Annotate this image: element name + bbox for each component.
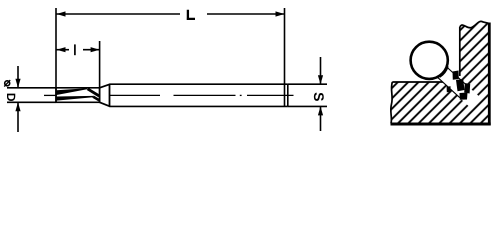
groove lower edge line bbox=[438, 77, 460, 97]
dimension S: upper leader with down arrowhead bbox=[320, 57, 322, 84]
dimension øD: lower extension line (bottom of cutting tip) bbox=[7, 101, 56, 103]
tool body: flute B helix return (down-right) bbox=[93, 97, 99, 101]
dimension l: label (lowercase l drawn as stroke) bbox=[74, 44, 76, 55]
workpiece: thick outer right edge bbox=[488, 23, 491, 126]
groove upper edge line bbox=[447, 67, 467, 85]
tool body: cutting tip rectangle outline bbox=[56, 88, 100, 103]
tool tip in groove: flute mark blob 1 bbox=[453, 71, 459, 80]
tool body: shank end face line bbox=[287, 84, 289, 106]
tool tip in groove: small chip mark bbox=[447, 86, 451, 92]
workpiece: wavy break line at top of wall bbox=[460, 21, 490, 27]
workpiece: wall left edge line bbox=[459, 27, 461, 76]
centerline: left stub bbox=[44, 94, 56, 96]
dimension S: lower leader with up arrowhead bbox=[320, 106, 322, 131]
tool body: flute A helix return (steep down-right) bbox=[88, 89, 100, 96]
tool body: taper bottom line bbox=[100, 102, 110, 106]
wire: right extension line of dimension L (passes through shank) bbox=[284, 8, 286, 106]
tool tip in groove: flute mark blob 3 bbox=[464, 83, 470, 94]
wire: right extension line of dimension l (continues into flute end line) bbox=[99, 41, 101, 102]
tool body: flute A wedge (rises toward top edge) bbox=[57, 88, 88, 95]
tool body: shank bottom edge bbox=[110, 105, 288, 107]
dimension l: right tail and arrowhead (pointing right) bbox=[83, 49, 100, 51]
dimension øD: upper leader with down arrowhead bbox=[17, 66, 19, 88]
dimension L: left arrowhead bbox=[57, 11, 66, 16]
svg-text:D: D bbox=[4, 93, 18, 102]
dimension l: left arrowhead (pointing left) with tail bbox=[57, 49, 70, 51]
tool body: flute B wedge bbox=[57, 96, 94, 101]
dimension øD: lower leader with up arrowhead bbox=[17, 102, 19, 132]
dimension L: right arrowhead bbox=[276, 11, 285, 16]
workpiece: floor top surface line bbox=[392, 81, 450, 83]
ball contact: thickened arc at lower-right of ball bbox=[439, 66, 447, 76]
tool tip in groove: flute mark blob 2 bbox=[456, 79, 465, 91]
dimension L: dimension line right segment bbox=[207, 13, 285, 15]
dimension øD: label ø (upright, drawn as circle + slash) bbox=[5, 81, 10, 86]
hatched workpiece: L-shaped corner section bbox=[391, 22, 490, 124]
dimension øD: upper extension line (top of cutting tip) bbox=[7, 87, 56, 89]
tool body: taper top line bbox=[100, 84, 110, 88]
ball resting in corner bbox=[411, 42, 448, 79]
workpiece: wavy break line at left of floor bbox=[391, 82, 393, 124]
tool body: shank top edge bbox=[110, 83, 288, 85]
dimension L: dimension line left segment bbox=[57, 13, 181, 15]
dimension S: lower extension line bbox=[288, 105, 327, 107]
wire: left extension line (tool tip face + extension up to L dimension) bbox=[55, 8, 57, 102]
workpiece: thick outer bottom edge bbox=[391, 123, 491, 126]
centerline: dashed axis of shank bbox=[110, 94, 160, 96]
svg-text:S: S bbox=[311, 92, 327, 101]
dimension L: label (drawn as strokes) bbox=[187, 10, 195, 19]
corner relief groove: white slot at 45° bbox=[436, 66, 479, 107]
tool tip in groove: flute mark blob 4 bbox=[460, 93, 468, 100]
dimension S: upper extension line (top of shank, continuous with shank edge) bbox=[288, 83, 327, 85]
tool body: shank start face line bbox=[109, 84, 111, 106]
